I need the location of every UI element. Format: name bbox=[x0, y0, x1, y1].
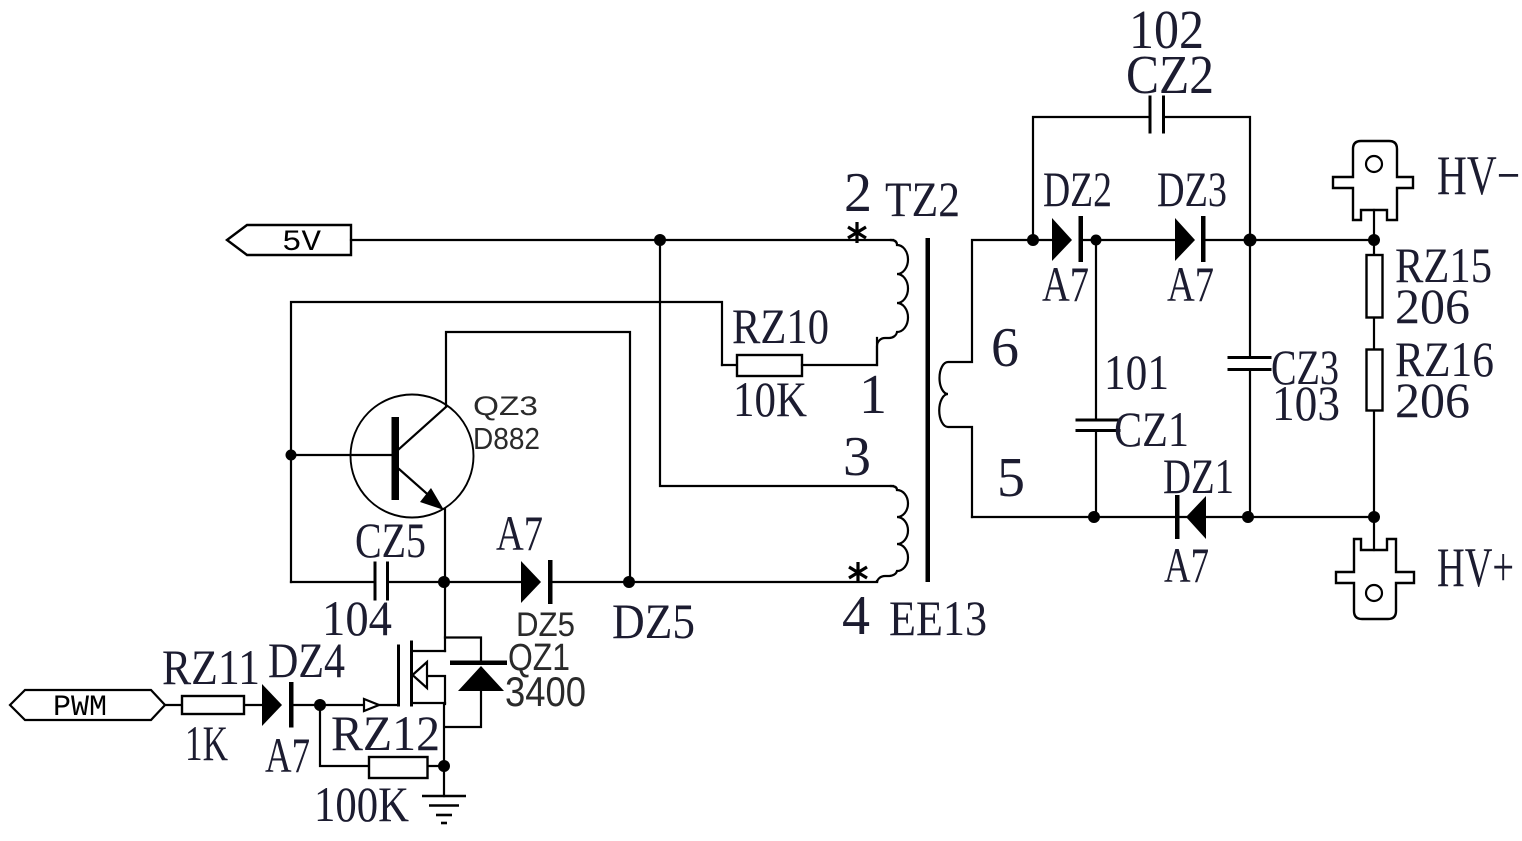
node DZ2 cathode bbox=[1091, 235, 1102, 246]
svg-text:TZ2: TZ2 bbox=[885, 171, 960, 227]
wire DZ4 to node bbox=[293, 704, 320, 706]
capacitor CZ3 bbox=[1229, 358, 1270, 370]
wire base of QZ3 bbox=[291, 454, 391, 456]
wire HV+ pin bbox=[1373, 517, 1375, 550]
svg-text:EE13: EE13 bbox=[889, 590, 987, 646]
connector 5V flag bbox=[227, 225, 351, 255]
mosfet QZ1 body diode triangle bbox=[458, 666, 504, 691]
transistor Q1 QZ3 circle bbox=[351, 395, 474, 518]
svg-text:A7: A7 bbox=[265, 727, 310, 783]
mosfet QZ1 body diode branch bbox=[445, 638, 481, 728]
wire RZ10 right stub to winding pin 1 bbox=[802, 338, 877, 365]
diode DZ2 bbox=[1052, 218, 1072, 261]
svg-text:206: 206 bbox=[1395, 278, 1470, 334]
wire MOSFET drain from CZ5 node bbox=[444, 582, 446, 651]
node source RZ12 bbox=[438, 760, 450, 772]
mosfet QZ1 drain stub bbox=[413, 650, 445, 652]
transistor QZ3 emitter line bbox=[399, 469, 434, 500]
node 5V rail bbox=[654, 234, 666, 246]
svg-text:A7: A7 bbox=[1042, 256, 1089, 312]
connector HV- body bbox=[1333, 141, 1413, 220]
wire RZ11 to DZ4 bbox=[244, 704, 262, 706]
wire CZ5 left bbox=[291, 581, 373, 583]
capacitor CZ1 bbox=[1077, 420, 1119, 431]
svg-text:3400: 3400 bbox=[505, 668, 586, 715]
inner box wire (collector loop to DZ5 node) bbox=[446, 332, 630, 578]
wire 5V rail vertical to winding 3 bbox=[660, 240, 893, 486]
mosfet QZ1 body arrow bbox=[413, 662, 428, 688]
node DZ4 cathode bbox=[314, 699, 326, 711]
svg-text:5: 5 bbox=[997, 447, 1025, 509]
node HV- bbox=[1368, 234, 1380, 246]
mosfet QZ1 body diode cathode bar bbox=[450, 661, 507, 666]
node CZ5 output bbox=[438, 576, 450, 588]
wire 5V rail horizontal bbox=[351, 239, 893, 241]
node CZ3 bottom bbox=[1242, 511, 1254, 523]
svg-text:RZ11: RZ11 bbox=[162, 639, 260, 695]
wire emitter to CZ5 node bbox=[444, 509, 446, 582]
svg-text:1: 1 bbox=[859, 364, 887, 426]
svg-text:RZ12: RZ12 bbox=[331, 705, 440, 761]
mosfet QZ1 channel bar bbox=[410, 642, 413, 705]
node DZ3 cathode bbox=[1244, 234, 1257, 247]
polarity asterisk pin 4 bbox=[849, 562, 867, 583]
svg-text:QZ3: QZ3 bbox=[473, 391, 538, 421]
svg-text:100K: 100K bbox=[314, 776, 409, 832]
ground bbox=[422, 796, 466, 823]
svg-text:206: 206 bbox=[1395, 372, 1470, 428]
svg-text:DZ5: DZ5 bbox=[612, 593, 695, 649]
wire outer feedback loop (top and left of QZ3 box) bbox=[291, 302, 722, 582]
mosfet QZ1 gate bar bbox=[397, 646, 400, 705]
transformer TZ2 secondary winding 6-5 bbox=[939, 240, 1033, 517]
node secondary pin6 bbox=[1027, 234, 1039, 246]
wire RZ15 RZ16 divider bbox=[1373, 240, 1375, 517]
capacitor CZ2 bbox=[1150, 97, 1164, 132]
svg-text:DZ3: DZ3 bbox=[1157, 161, 1227, 217]
wire DZ4 output to gate bbox=[320, 704, 397, 706]
wire CZ2 loop bbox=[1033, 117, 1250, 240]
svg-text:103: 103 bbox=[1272, 375, 1340, 431]
svg-text:D882: D882 bbox=[473, 421, 540, 456]
wire DZ5 cathode to node bbox=[552, 581, 877, 583]
node HV+ bbox=[1368, 511, 1380, 523]
svg-text:RZ10: RZ10 bbox=[732, 298, 829, 354]
svg-text:A7: A7 bbox=[1167, 256, 1214, 312]
node CZ1 bottom bbox=[1088, 511, 1100, 523]
wire RZ10 left stub bbox=[722, 364, 737, 366]
svg-text:A7: A7 bbox=[496, 505, 543, 561]
mosfet QZ1 body stub bbox=[427, 676, 445, 704]
transistor QZ3 collector line bbox=[398, 406, 447, 450]
svg-text:HV−: HV− bbox=[1437, 145, 1520, 207]
svg-text:PWM: PWM bbox=[53, 691, 107, 725]
transformer core bbox=[926, 238, 931, 582]
diode DZ3 bbox=[1175, 218, 1195, 261]
diode DZ5 bbox=[521, 561, 541, 603]
node DZ5 cathode bbox=[623, 576, 635, 588]
resistor RZ11 bbox=[182, 696, 244, 714]
wire CZ1 branch bbox=[1095, 240, 1097, 517]
connector HV- hole bbox=[1366, 156, 1382, 172]
connector HV+ body bbox=[1336, 539, 1414, 619]
capacitor CZ5 bbox=[375, 563, 388, 599]
resistor RZ12 bbox=[369, 757, 428, 778]
svg-text:5V: 5V bbox=[282, 226, 321, 260]
wire source to ground bbox=[443, 704, 445, 796]
wire rectifier top rail bbox=[1033, 239, 1374, 241]
transformer TZ2 primary winding 3-4 bbox=[877, 486, 908, 583]
svg-text:A7: A7 bbox=[1164, 537, 1209, 593]
diode DZ1 bbox=[1186, 496, 1206, 539]
svg-text:10K: 10K bbox=[733, 371, 807, 427]
polarity asterisk pin 2 bbox=[848, 222, 866, 243]
svg-text:CZ5: CZ5 bbox=[355, 512, 426, 568]
diode DZ4 bbox=[262, 684, 282, 726]
svg-text:DZ1: DZ1 bbox=[1163, 448, 1234, 504]
resistor RZ10 bbox=[737, 355, 802, 376]
svg-text:1K: 1K bbox=[185, 715, 228, 771]
svg-text:HV+: HV+ bbox=[1437, 537, 1514, 599]
wire PWM to RZ11 bbox=[165, 704, 182, 706]
wire HV- pin bbox=[1373, 210, 1375, 240]
svg-text:CZ2: CZ2 bbox=[1126, 44, 1214, 105]
MOSFET QZ1 bbox=[364, 638, 481, 728]
wire CZ5 right to node bbox=[389, 581, 521, 583]
transistor QZ3 base bar bbox=[392, 417, 400, 500]
svg-text:DZ2: DZ2 bbox=[1043, 161, 1112, 217]
transistor QZ3 emitter arrow bbox=[420, 488, 444, 510]
wire secondary pin5 to HV+ rail bbox=[972, 516, 1374, 518]
wire CZ3 branch bbox=[1249, 240, 1251, 517]
svg-text:104: 104 bbox=[322, 590, 392, 646]
svg-text:101: 101 bbox=[1104, 344, 1169, 400]
connector HV+ hole bbox=[1366, 585, 1382, 601]
mosfet QZ1 source stub bbox=[413, 702, 445, 704]
wire RZ12 branch bbox=[320, 705, 369, 766]
svg-text:6: 6 bbox=[991, 317, 1019, 379]
wire RZ12 to source bbox=[427, 765, 444, 767]
svg-text:2: 2 bbox=[844, 162, 872, 224]
resistor RZ15 bbox=[1367, 255, 1383, 318]
svg-text:4: 4 bbox=[842, 585, 870, 647]
resistor RZ16 bbox=[1367, 350, 1383, 411]
gate input arrow bbox=[364, 699, 379, 711]
connector PWM flag bbox=[10, 690, 165, 720]
node QZ3 base bbox=[286, 450, 297, 461]
svg-text:3: 3 bbox=[843, 426, 871, 488]
transformer TZ2 primary winding 2-1 bbox=[877, 240, 908, 365]
